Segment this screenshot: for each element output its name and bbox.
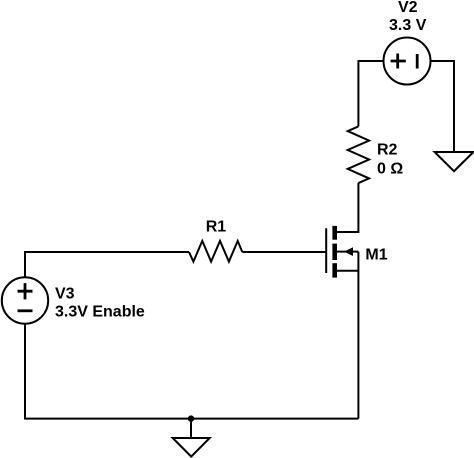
- wire V2 right lead: [431, 61, 455, 152]
- svg-text:M1: M1: [365, 247, 387, 264]
- svg-text:0 Ω: 0 Ω: [377, 161, 403, 178]
- wire R2 bottom to drain: [337, 183, 358, 232]
- node junction dot: [188, 415, 194, 421]
- wire source/body to bottom rail: [357, 252, 359, 419]
- svg-text:R1: R1: [206, 218, 227, 235]
- svg-text:V3: V3: [55, 286, 75, 303]
- wire V3 bottom to rail: [25, 324, 358, 419]
- wire V2 left lead to R2 top: [358, 61, 383, 126]
- svg-text:V2: V2: [398, 0, 418, 16]
- voltage source V2: [384, 38, 431, 85]
- ground right: [435, 152, 474, 171]
- ground bottom: [190, 419, 192, 438]
- svg-text:3.3 V: 3.3 V: [389, 17, 427, 34]
- svg-text:R2: R2: [377, 142, 398, 159]
- svg-text:3.3V Enable: 3.3V Enable: [55, 303, 145, 320]
- transistor M1: [326, 226, 358, 278]
- voltage source V3: [2, 277, 48, 323]
- wire R1 to gate: [242, 251, 326, 253]
- resistor R1: [189, 241, 242, 262]
- wire gate net: V3 top to gate: [25, 252, 189, 278]
- resistor R2: [348, 126, 369, 183]
